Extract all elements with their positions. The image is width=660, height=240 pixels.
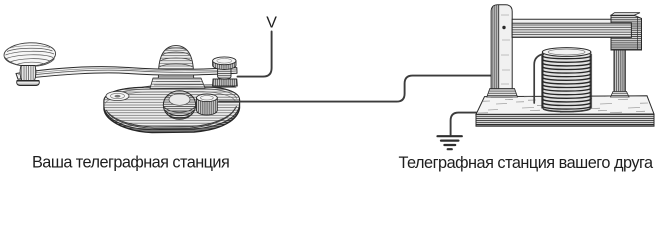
key base left pad — [106, 91, 129, 100]
telegraph key — [4, 42, 240, 133]
wire from sounder base to ground — [451, 113, 478, 135]
key pivot frame block — [150, 78, 205, 89]
sounder coil base shadow — [543, 109, 590, 112]
sounder left post — [487, 5, 518, 97]
sounder coil (electromagnet) — [542, 48, 590, 112]
svg-text:Телеграфная станция вашего дру: Телеграфная станция вашего друга — [399, 154, 655, 172]
key knob — [4, 42, 56, 67]
telegraph sounder — [476, 5, 654, 126]
sounder base plank front — [476, 114, 654, 126]
sounder top arm — [512, 19, 631, 37]
key base circular boss — [163, 91, 195, 120]
key terminal post with knurled nut — [213, 57, 238, 86]
key lever arm — [16, 67, 237, 79]
node V label — [266, 15, 277, 32]
wire from key to sounder (line wire) — [219, 76, 491, 102]
ground — [438, 136, 462, 149]
sounder right bracket — [611, 13, 642, 50]
svg-text:V: V — [266, 15, 277, 32]
wire from key terminal up to V — [238, 32, 272, 77]
sounder coil lead wire — [534, 54, 543, 103]
key base plate — [104, 85, 240, 133]
sounder base plank top — [476, 96, 654, 115]
caption: your telegraph station — [32, 154, 229, 172]
svg-text:Ваша телеграфная станция: Ваша телеграфная станция — [32, 154, 229, 172]
caption: friend's telegraph station — [399, 154, 655, 172]
sounder right rod — [611, 50, 630, 97]
key pivot dome — [158, 46, 194, 85]
key knob stem — [17, 66, 40, 86]
key contact block cylinder — [197, 94, 218, 115]
